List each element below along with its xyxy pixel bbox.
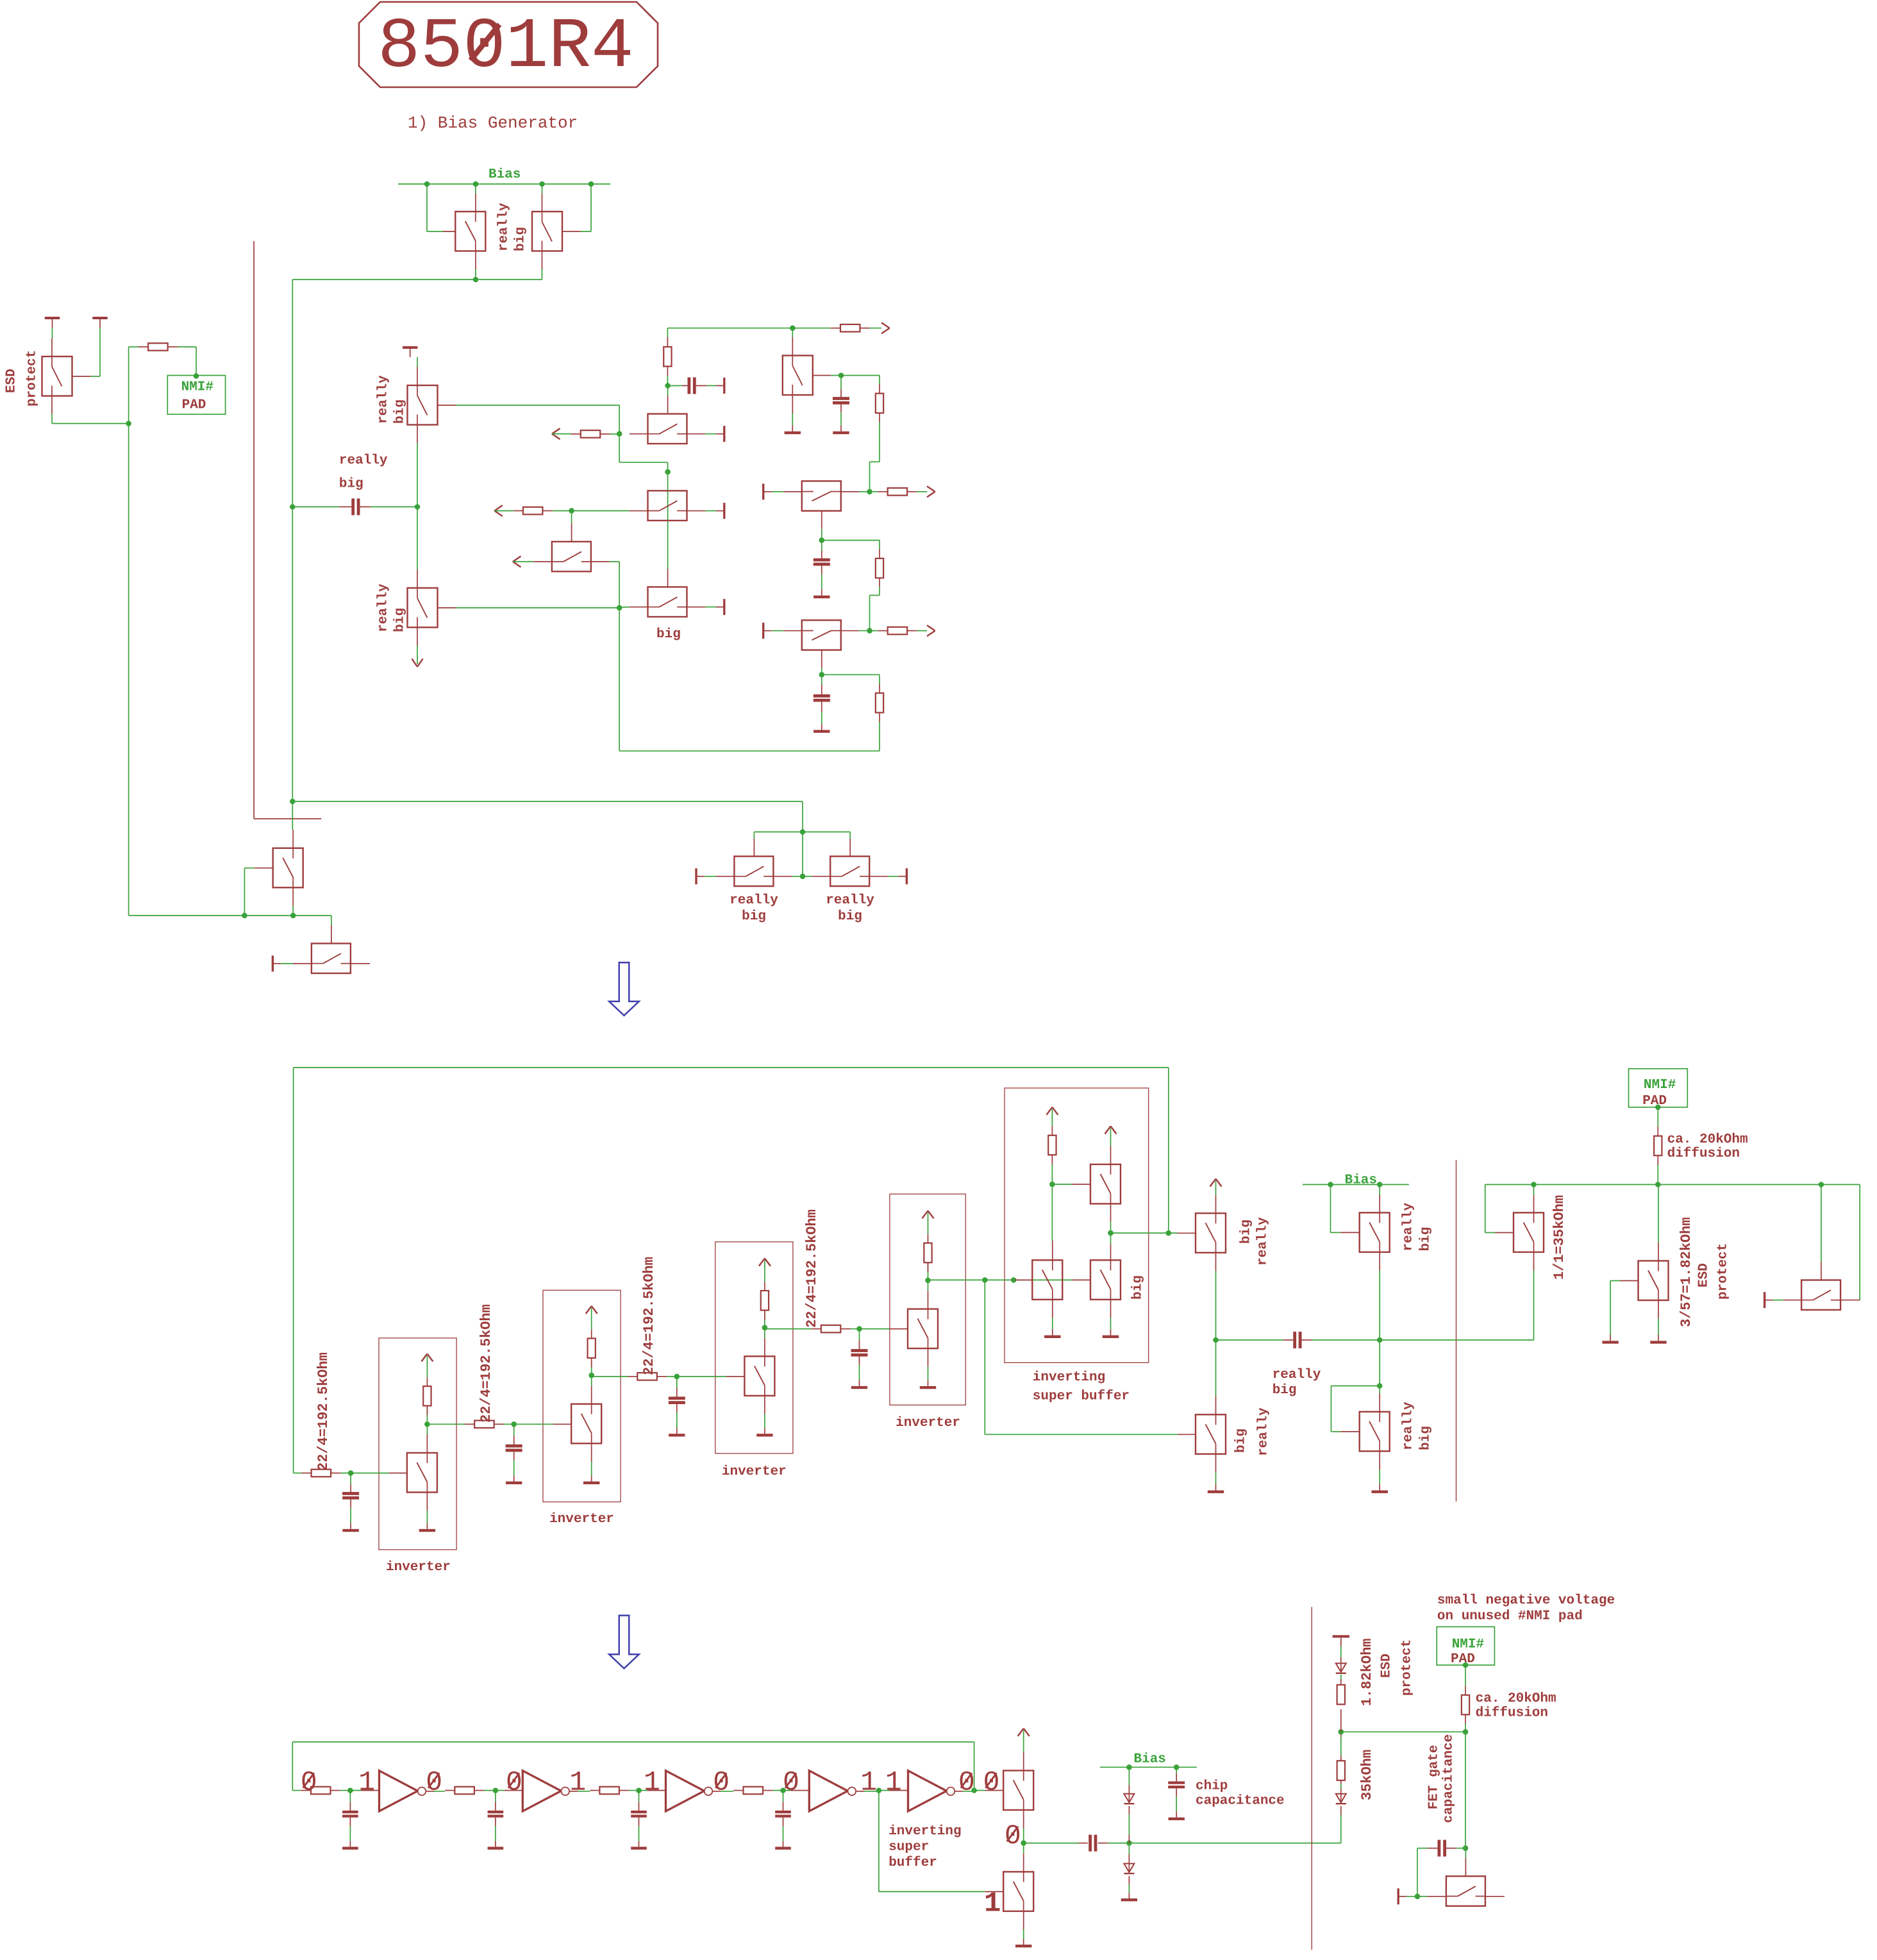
terminal K2 (906, 868, 908, 884)
supply T (section3) (1333, 1635, 1349, 1638)
terminal (723, 426, 725, 442)
transistor Q1 really big (bias diode left) (475, 194, 476, 212)
transistor Q16 (gate top) (281, 963, 293, 964)
wire (1417, 1848, 1418, 1897)
transistor (inverter pull-down) (571, 1404, 601, 1444)
svg-text:inverter: inverter (722, 1464, 787, 1479)
wire Q28 source gnd (1023, 1911, 1024, 1930)
transistor (inverter pull-down) (407, 1453, 437, 1493)
transistor (inverter pull-down) (744, 1356, 774, 1396)
transistor Q22 really big (diode) (1330, 1185, 1331, 1233)
inverter gate (522, 1771, 561, 1811)
wire (52, 423, 129, 424)
svg-text:NMI#: NMI# (1644, 1078, 1676, 1093)
wire Tc source gnd (1052, 1300, 1053, 1318)
resistor R3 (792, 328, 830, 329)
blue arrow 1 (609, 962, 639, 1016)
wire drain (591, 1386, 592, 1404)
transistor Q3 ESD protect (51, 339, 53, 357)
wire (822, 674, 880, 675)
svg-text:1: 1 (569, 1767, 586, 1798)
blue arrow 2 (609, 1616, 639, 1669)
wire to inverter (350, 1790, 361, 1791)
wire Bias (1303, 1184, 1409, 1185)
transistor Q7 (792, 328, 793, 337)
wire gate (677, 1376, 726, 1377)
resistor (load) (764, 1311, 765, 1328)
svg-text:1: 1 (984, 1888, 1001, 1920)
wire Q28 gate path (878, 1791, 880, 1892)
wire (178, 346, 196, 348)
wire output row (1129, 1843, 1340, 1844)
wire stage4 out (928, 1279, 1014, 1280)
junction pad (1463, 1663, 1469, 1668)
wire Q27 source (1023, 1810, 1024, 1829)
resistor R13 ca. 20kOhm diffusion (1465, 1665, 1466, 1686)
resistor (input) (628, 1376, 637, 1377)
terminal (723, 378, 725, 394)
wire stage1-2 (427, 1423, 465, 1425)
svg-text:22/4=192.5kOhm: 22/4=192.5kOhm (641, 1257, 657, 1375)
wire source to ground (928, 1348, 929, 1367)
wire Q5 source to arrow (417, 628, 418, 646)
svg-text:really: really (826, 893, 874, 908)
wire source to ground (426, 1493, 428, 1511)
terminal row3 (762, 623, 764, 639)
wire loop (619, 750, 880, 751)
svg-text:22/4=192.5kOhm: 22/4=192.5kOhm (478, 1304, 494, 1423)
svg-text:8501R4: 8501R4 (378, 8, 634, 88)
svg-text:diffusion: diffusion (1476, 1706, 1548, 1721)
ground (1650, 1341, 1666, 1343)
NMI# PAD box (section2) (1629, 1069, 1688, 1107)
junction (347, 1788, 353, 1793)
ground (833, 431, 849, 434)
wire to Q27 gate (974, 1790, 985, 1791)
svg-text:inverter: inverter (896, 1416, 960, 1430)
svg-text:really: really (1401, 1402, 1415, 1450)
ground (1015, 1945, 1031, 1947)
resistor R1 (571, 433, 581, 435)
terminal (section3) (1397, 1888, 1399, 1904)
svg-text:1: 1 (885, 1767, 902, 1798)
svg-text:capacitance: capacitance (1441, 1734, 1456, 1823)
wire Q11 gate down (821, 511, 822, 530)
VCC arrow (421, 1354, 427, 1362)
svg-text:big: big (392, 608, 407, 632)
capacitor C3 (821, 540, 822, 551)
svg-text:really: really (376, 583, 390, 632)
resistor (load) (591, 1358, 592, 1375)
net arrow right row1 (881, 322, 890, 328)
wire (619, 562, 620, 751)
svg-text:buffer: buffer (888, 1855, 937, 1870)
ground (1169, 1818, 1185, 1820)
wire input (292, 1790, 301, 1791)
junction output (971, 1788, 977, 1793)
capacitor (859, 1329, 860, 1341)
svg-text:big: big (1418, 1227, 1433, 1252)
transistor Q24 1/1=35kOhm (diode) (1485, 1185, 1486, 1233)
svg-text:3/57=1.82kOhm: 3/57=1.82kOhm (1678, 1217, 1694, 1327)
transistor Q20 big really (1178, 1232, 1196, 1234)
wire loop to stage1 (294, 1473, 302, 1474)
svg-text:inverting: inverting (1033, 1370, 1105, 1385)
ground (851, 1386, 867, 1389)
wire resistor chain column (1340, 1815, 1342, 1843)
ground (1044, 1336, 1060, 1338)
resistor R2 vertical (667, 328, 668, 337)
junction (493, 1788, 499, 1793)
capacitor (RC) (349, 1791, 351, 1802)
diode D2 (1128, 1843, 1130, 1854)
wire Bias rail (398, 183, 610, 185)
wire (1859, 1185, 1860, 1300)
wire (52, 328, 53, 339)
capacitor C8 FET gate capacitance (1417, 1848, 1428, 1849)
svg-text:really: really (339, 453, 388, 468)
wire 2090 row to Q24 source (1380, 1339, 1533, 1341)
wire row1 (667, 328, 792, 329)
VCC arrow (922, 1210, 928, 1218)
transistor Q10 big (gate top) (667, 564, 669, 569)
svg-text:super buffer: super buffer (1033, 1389, 1130, 1404)
wire Q6 gate up (667, 396, 669, 414)
net arrow (513, 557, 521, 562)
svg-text:PAD: PAD (182, 398, 206, 412)
wire Bias3 (1100, 1766, 1197, 1768)
wire T1 gate net (426, 184, 428, 231)
inverter group box (715, 1242, 793, 1453)
resistor (input) (301, 1473, 311, 1474)
capacitor C6 (output) (1024, 1843, 1079, 1844)
terminal (723, 599, 725, 615)
ground (506, 1482, 522, 1484)
wire gate (514, 1423, 553, 1425)
ground (756, 1434, 772, 1436)
wire gate (351, 1473, 388, 1474)
inverting super buffer group box (1005, 1088, 1149, 1362)
inverter gate (908, 1771, 947, 1811)
wire to inverter (639, 1790, 648, 1791)
svg-text:protect: protect (24, 350, 39, 406)
svg-text:big: big (1418, 1426, 1433, 1450)
wire row 1250 (292, 801, 803, 802)
svg-text:Bias: Bias (488, 167, 521, 182)
svg-text:big: big (742, 909, 766, 924)
ground (1602, 1341, 1618, 1343)
wire drain (764, 1338, 765, 1357)
terminal (1764, 1292, 1765, 1308)
capacitor (RC) (638, 1791, 640, 1802)
svg-text:really: really (1255, 1217, 1270, 1266)
ground (342, 1529, 358, 1532)
ground (583, 1482, 599, 1484)
capacitor C2 (840, 376, 842, 390)
net arrow row 797 (494, 505, 503, 511)
resistor (RC) (589, 1790, 590, 1791)
VCC arrow P1 (1105, 1127, 1111, 1134)
diode D3 (1340, 1663, 1342, 1673)
svg-text:really: really (1401, 1202, 1415, 1251)
ground (1103, 1336, 1119, 1338)
NMI# PAD box (section3) (1437, 1627, 1494, 1665)
wire (712, 1791, 721, 1792)
VCC arrow (759, 1259, 765, 1266)
svg-text:really: really (496, 203, 511, 251)
svg-text:1: 1 (644, 1767, 660, 1798)
transistor Q25 ESD protect (1610, 1280, 1620, 1282)
svg-text:ESD: ESD (1379, 1654, 1394, 1678)
net arrow right row2 (927, 486, 935, 492)
wire long vertical x=200 (128, 424, 129, 916)
wire 2701 row (1341, 1731, 1465, 1732)
resistor R_ESD (138, 346, 148, 348)
transistor Q23 really big (diode lower) (1379, 1340, 1380, 1386)
transistor Q13 really big (gate top) (705, 876, 716, 877)
resistor R14 ca. 20kOhm diffusion (1657, 1107, 1658, 1127)
transistor Q12 (gate bottom) (802, 620, 841, 650)
svg-text:22/4=192.5kOhm: 22/4=192.5kOhm (804, 1209, 820, 1328)
transistor Q18 (SB pull-down follower) (1072, 1279, 1090, 1280)
separator line B (1311, 1607, 1312, 1950)
wire feedback loop (section3) (292, 1741, 974, 1743)
svg-text:big: big (838, 909, 862, 924)
transistor Q21 big really (lower) (1215, 1340, 1217, 1396)
wire drain (928, 1291, 929, 1309)
transistor Q29 (gate top) (1406, 1896, 1417, 1897)
svg-text:ESD: ESD (1696, 1263, 1711, 1287)
svg-text:NMI#: NMI# (1452, 1638, 1484, 1652)
ground (785, 431, 801, 434)
resistor R5 (513, 510, 523, 512)
junction (1339, 1729, 1344, 1735)
inverter group box (543, 1290, 621, 1502)
resistor R12 1.82kOhm (1340, 1709, 1342, 1732)
svg-text:big: big (392, 399, 407, 424)
svg-text:Bias: Bias (1345, 1173, 1377, 1188)
wire long left vertical (292, 280, 293, 801)
VCC arrow Q20 (1210, 1179, 1216, 1187)
svg-text:big: big (339, 477, 363, 492)
svg-text:0: 0 (783, 1767, 799, 1798)
wire (822, 540, 880, 541)
transistor (inverter pull-down) (908, 1309, 938, 1349)
capacitor C4 (821, 674, 822, 685)
wire (856, 1791, 864, 1792)
svg-text:big: big (513, 227, 528, 251)
resistor R9 vertical (876, 693, 883, 713)
wire (99, 328, 101, 376)
net arrow row 676 (552, 428, 560, 434)
resistor (input) (465, 1423, 474, 1425)
resistor (load) (426, 1406, 428, 1425)
transistor Q28 (output pull-down) (1023, 1843, 1024, 1854)
svg-text:0: 0 (301, 1767, 317, 1798)
net arrow right row3 (927, 625, 935, 631)
transistor Q11 (gate bottom) (802, 481, 841, 511)
wire P1 source / Td drain / output (1110, 1204, 1112, 1222)
ground (419, 1529, 435, 1532)
svg-text:1: 1 (358, 1767, 375, 1798)
wire to pull-down gate (984, 1280, 985, 1434)
svg-text:1) Bias Generator: 1) Bias Generator (408, 113, 578, 133)
terminal row2 (762, 483, 764, 499)
wire to inverter (496, 1790, 505, 1791)
capacitor (RC) (783, 1791, 784, 1802)
transistor Q2 really big (bias diode right) (542, 194, 543, 212)
ground (1208, 1491, 1224, 1493)
transistor Q26 (gate top) (1821, 1185, 1822, 1262)
wire drain (426, 1435, 428, 1453)
ground (1121, 1898, 1137, 1901)
capacitor C7 chip capacitance (1176, 1767, 1177, 1773)
wire to R4v (841, 375, 880, 376)
wire (619, 462, 667, 463)
supply T3 (403, 346, 417, 349)
resistor (RC) (301, 1790, 302, 1791)
junction (667, 1376, 677, 1377)
wire (772, 491, 784, 492)
svg-text:diffusion: diffusion (1667, 1146, 1740, 1161)
wire (772, 630, 784, 632)
svg-text:really: really (1256, 1407, 1271, 1456)
svg-text:0: 0 (506, 1767, 522, 1798)
svg-text:0: 0 (958, 1767, 975, 1798)
wire source to ground (764, 1396, 765, 1414)
svg-text:Bias: Bias (1134, 1752, 1166, 1767)
wire NMI row (1485, 1184, 1860, 1185)
resistor R4 vertical (876, 394, 883, 414)
capacitor C5 really big (1216, 1339, 1283, 1341)
wire (569, 1791, 578, 1792)
svg-text:inverting: inverting (888, 1824, 961, 1839)
wire bias source rail (292, 279, 542, 280)
inverter group box (890, 1194, 965, 1405)
ground (813, 596, 830, 598)
resistor (RC) (444, 1790, 446, 1791)
ground (488, 1847, 504, 1849)
transistor Q19 (SB pull-up) (1090, 1164, 1121, 1204)
inverter gate (380, 1771, 418, 1811)
wire (572, 510, 630, 512)
junction (340, 1473, 351, 1474)
net arrow down (412, 658, 418, 667)
supply T2 (92, 317, 107, 319)
diode D4 (1340, 1806, 1342, 1815)
wire to inverter (879, 1790, 890, 1791)
wire input over Tc (1014, 1279, 1072, 1280)
transistor Q6 (gate top) (648, 414, 687, 444)
svg-text:chip: chip (1196, 1779, 1228, 1794)
wire Q12 gate down (821, 650, 822, 669)
junction (876, 1788, 882, 1793)
wire (955, 1791, 963, 1792)
VCC arrow SB (1046, 1107, 1052, 1115)
svg-text:really: really (1272, 1368, 1321, 1382)
svg-text:FET gate: FET gate (1426, 1745, 1441, 1809)
NMI# PAD box (167, 376, 225, 415)
svg-text:1/1=35kOhm: 1/1=35kOhm (1551, 1195, 1567, 1280)
ground (920, 1386, 936, 1389)
capacitor C1 (668, 385, 682, 387)
diode D1 (1128, 1767, 1130, 1784)
svg-text:0: 0 (713, 1767, 730, 1798)
svg-text:0: 0 (983, 1767, 1000, 1798)
svg-text:capacitance: capacitance (1196, 1794, 1285, 1809)
svg-text:big: big (656, 627, 681, 642)
wire output (1111, 1232, 1178, 1234)
svg-text:inverter: inverter (549, 1512, 614, 1527)
svg-text:big: big (1272, 1383, 1297, 1398)
svg-text:protect: protect (1715, 1243, 1730, 1300)
transistor Q17 (SB inverter) (1032, 1260, 1062, 1300)
ground (1372, 1491, 1388, 1493)
wire (617, 431, 622, 437)
svg-text:big: big (1130, 1275, 1145, 1300)
inverter group box (379, 1338, 456, 1550)
resistor (input) (812, 1328, 821, 1330)
svg-text:NMI#: NMI# (181, 380, 213, 395)
wire Tc drain to P1 gate node (1051, 1184, 1053, 1241)
terminal (723, 503, 725, 519)
svg-text:ca. 20kOhm: ca. 20kOhm (1476, 1691, 1556, 1706)
svg-text:0: 0 (426, 1767, 442, 1798)
wire gates (754, 832, 850, 833)
svg-text:22/4=192.5kOhm: 22/4=192.5kOhm (315, 1352, 331, 1471)
capacitor really big (292, 507, 339, 508)
ground (669, 1434, 685, 1436)
transistor Q5 really big (417, 507, 418, 570)
capacitor (513, 1424, 515, 1436)
wire Q4 gate to right (456, 405, 619, 406)
transistor Q4 really big (417, 357, 418, 367)
wire (426, 1791, 434, 1792)
svg-text:1.82kOhm: 1.82kOhm (1359, 1638, 1375, 1706)
svg-text:0: 0 (1005, 1820, 1021, 1852)
svg-text:big: big (1233, 1428, 1248, 1453)
wire feedback loop top (294, 1067, 1169, 1068)
transistor Q27 (output pull-up) (1003, 1771, 1033, 1811)
supply T1 (45, 317, 60, 319)
wire source to ground (591, 1443, 592, 1462)
junction (504, 1423, 514, 1425)
svg-text:super: super (888, 1840, 929, 1855)
wire Td source gnd (1110, 1300, 1112, 1318)
svg-text:on unused #NMI pad: on unused #NMI pad (1437, 1609, 1583, 1624)
svg-text:small negative voltage: small negative voltage (1437, 1593, 1615, 1608)
wire Q29 gate (1465, 1848, 1466, 1858)
red annotation line (253, 241, 254, 819)
junction pad2 (1655, 1105, 1661, 1110)
capacitor (RC) (495, 1791, 496, 1802)
transistor Q9 (gate top) (571, 511, 572, 524)
resistor R11 35kOhm (1337, 1761, 1345, 1780)
transistor Q15 (292, 801, 293, 830)
wire NMI column down (1465, 1732, 1466, 1848)
svg-text:really: really (376, 375, 390, 424)
svg-text:ca. 20kOhm: ca. 20kOhm (1667, 1132, 1748, 1147)
resistor R10 vertical (1051, 1116, 1053, 1126)
terminal I (272, 955, 274, 971)
resistor (load) (928, 1262, 929, 1280)
wire gate (860, 1328, 890, 1330)
transistor Q14 really big (gate top) (803, 876, 812, 877)
wire Q4 source down (417, 425, 418, 444)
capacitor (350, 1473, 351, 1485)
resistor R6 (870, 491, 878, 492)
svg-text:inverter: inverter (386, 1560, 451, 1575)
